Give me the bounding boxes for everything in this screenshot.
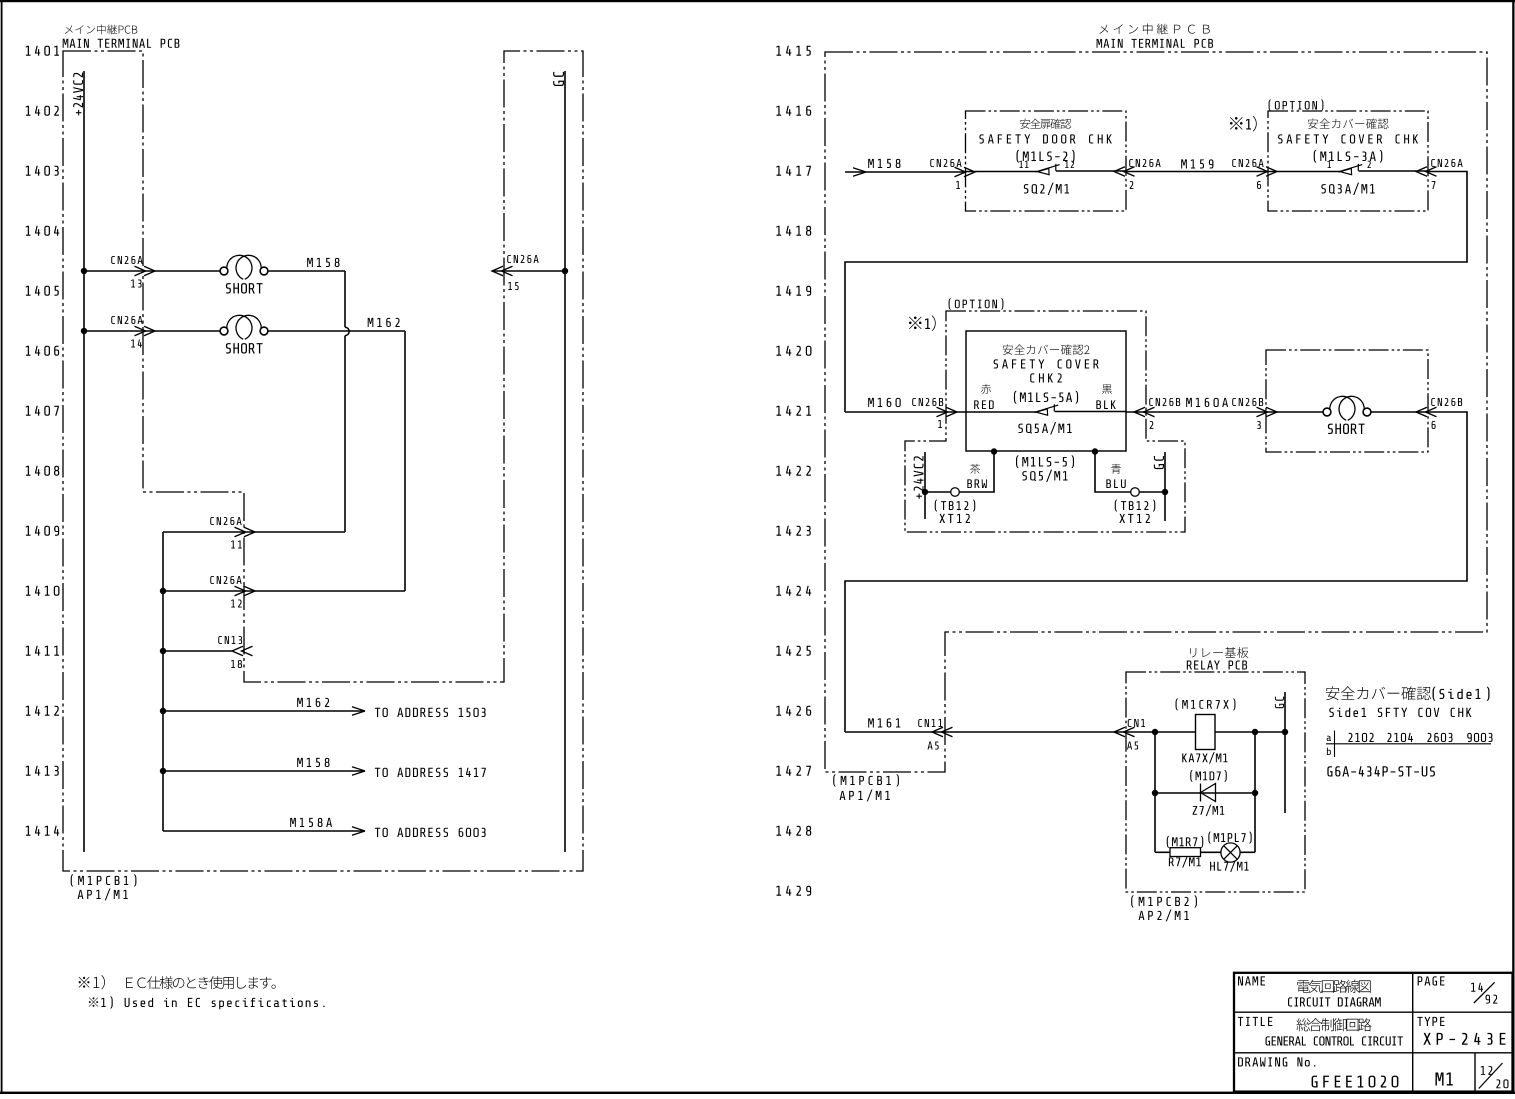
label 青 BLU: [1106, 464, 1125, 488]
title PAGE: [1418, 976, 1445, 985]
label (M1PCB1) AP1/M1 (left): [71, 874, 137, 900]
right PCB dash-dot boundary: [825, 52, 1487, 772]
label RELAY PCB: [1187, 661, 1247, 670]
label M161: [868, 718, 900, 727]
jumper SHORT M162: [220, 315, 268, 353]
wire 1421 to 1425: [845, 412, 1467, 732]
relay PCB dash-dot box: [1126, 672, 1305, 892]
title GFEE1020: [1312, 1076, 1399, 1088]
entry arrow M158: [845, 159, 901, 176]
limit switch SQ5A wire left: [966, 411, 1036, 413]
+24VC2 stub line: [914, 452, 925, 519]
connector CN13 pin 18: [218, 636, 252, 668]
label 安全扉確認: [1020, 119, 1071, 129]
GC line (relay): [1275, 692, 1285, 813]
wire resistor to lamp: [1201, 851, 1222, 853]
label (M1PCB1) AP1/M1 (right): [833, 774, 899, 801]
label ref mark 2: [909, 315, 936, 331]
limit switch SQ5A wire right: [1055, 411, 1126, 413]
wire M160: [845, 411, 966, 413]
label SAFETY COVER CHK: [1278, 134, 1418, 143]
label 茶 BRW: [967, 464, 987, 488]
wire M160A: [1126, 398, 1266, 412]
drawing fraction 12/20: [1479, 1063, 1509, 1089]
title block frame: [1234, 973, 1513, 1092]
wire terminal to GC: [1139, 491, 1165, 493]
right branch vertical: [1254, 732, 1256, 852]
title NAME: [1238, 976, 1265, 985]
title TITLE: [1238, 1017, 1273, 1026]
wire M158 to door chk: [866, 171, 966, 173]
connector CN26A pin 12: [210, 576, 255, 607]
label SAFETY DOOR CHK: [979, 134, 1111, 143]
wire coil to GC: [1215, 731, 1285, 733]
connector CN11 pin A5: [918, 719, 952, 749]
label リレー基板: [1190, 647, 1248, 658]
label SQ3A/M1: [1321, 183, 1374, 195]
wire CN26A14 to SHORT: [84, 330, 220, 332]
label (M1LS-5): [1016, 455, 1074, 468]
label (TB12) right: [1115, 500, 1156, 512]
connector CN26A pin 13: [111, 256, 155, 287]
label SQ5A/M1: [1018, 422, 1071, 434]
label (M1LS-5A): [1014, 391, 1078, 404]
GC line (left): [553, 71, 565, 852]
limit switch SQ2 wire right: [1056, 170, 1126, 172]
label main terminal PCB (right, Japanese): [1099, 23, 1209, 34]
wire right drop: [1095, 452, 1131, 493]
short jumper box: [1266, 350, 1428, 452]
wire terminal to +24VC2: [925, 491, 951, 493]
title 総合制御回路: [1296, 1018, 1371, 1031]
wire row 1410 to M162: [163, 590, 405, 592]
label MAIN TERMINAL PCB (left): [63, 39, 180, 48]
limit switch SQ3A contact: [1327, 161, 1370, 175]
title TYPE: [1417, 1017, 1444, 1026]
text TO ADDRESS 1417: [375, 768, 486, 777]
wire M158A out: [163, 818, 365, 835]
lamp HL7: [1208, 832, 1251, 872]
relay coil M1CR7X: [1176, 698, 1236, 763]
node diode left: [1152, 790, 1158, 796]
label 安全カバー確認: [1308, 118, 1389, 129]
wire M162 horizontal: [268, 318, 405, 331]
left bus vertical: [162, 532, 164, 831]
label MAIN TERMINAL PCB (right): [1097, 39, 1213, 48]
node box-bottom right: [1092, 448, 1098, 454]
wire CN26A13 to SHORT: [84, 270, 220, 272]
label XT12 right: [1119, 514, 1150, 523]
terminal XT12 right: [1131, 488, 1140, 497]
wire diode row: [1155, 792, 1255, 794]
label SQ2/M1: [1024, 183, 1069, 195]
node diode top: [1252, 729, 1258, 735]
connector CN26A pin 7: [1416, 159, 1463, 189]
limit switch SQ2 contact: [1019, 161, 1074, 175]
side note Side1 SFTY COV CHK: [1329, 708, 1471, 717]
node +24VC2/M158: [81, 268, 87, 274]
safety door chk box: [966, 111, 1127, 211]
node +24VC2 stub: [922, 489, 928, 495]
node GC stub: [1162, 489, 1168, 495]
node bus 1413: [160, 768, 166, 774]
resistor M1R7: [1167, 836, 1204, 868]
label G6A-434P-ST-US: [1327, 766, 1435, 776]
wire left drop: [959, 452, 994, 493]
label (M1LS-3A): [1314, 150, 1383, 163]
connector CN26B pin 3: [1232, 398, 1277, 429]
limit switch SQ3A wire right: [1359, 170, 1428, 172]
label (M1LS-2): [1017, 150, 1075, 163]
label M160: [868, 398, 901, 407]
wire M162 vertical: [404, 331, 406, 591]
node bus 1410: [160, 588, 166, 594]
note EC English: [89, 996, 325, 1009]
crossover hop M158 over M162: [345, 327, 349, 335]
connector CN26A pin 11: [210, 517, 255, 548]
text TO ADDRESS 6003: [375, 828, 486, 837]
connector CN26B pin 2 (row1421): [1134, 398, 1180, 429]
left branch vertical: [1154, 732, 1156, 852]
label 赤 RED: [974, 384, 994, 409]
connector CN26A pin 1: [930, 159, 975, 189]
connector CN1 pin A5: [1114, 719, 1145, 749]
node +24VC2/M162: [81, 328, 87, 334]
wire row 1409 to M158: [163, 531, 345, 533]
connector CN26A pin 6: [1232, 159, 1277, 189]
+24VC2 supply line: [73, 71, 84, 852]
diode M1D7: [1190, 770, 1227, 816]
label (OPTION) cover chk: [1269, 99, 1324, 110]
label 黒 BLK: [1096, 384, 1115, 409]
option boundary cover chk2: [905, 311, 1185, 532]
title XP-243E: [1423, 1033, 1505, 1045]
node GC relay: [1282, 729, 1288, 735]
wire short right: [1371, 411, 1428, 413]
node diode right: [1252, 790, 1258, 796]
jumper SHORT M158: [220, 255, 268, 293]
node bus 1411: [160, 648, 166, 654]
limit switch SQ3A wire left: [1268, 171, 1340, 173]
title 電気回路線図: [1297, 980, 1370, 993]
safety cover chk box: [1268, 111, 1428, 211]
title M1: [1435, 1073, 1452, 1086]
node bus 1412: [160, 708, 166, 714]
label SQ5/M1: [1022, 470, 1067, 482]
side note 安全カバー確認(Side1): [1326, 686, 1490, 700]
connector CN26B pin 6: [1416, 398, 1462, 429]
GC stub line: [1154, 452, 1165, 521]
connector CN26A pin 15: [492, 255, 539, 290]
wire short left: [1266, 411, 1323, 413]
label main terminal PCB (left, Japanese): [65, 24, 137, 34]
wire M158 vertical lower: [344, 336, 346, 532]
left PCB dash-dot boundary: [63, 51, 583, 871]
wire M158 out: [163, 758, 365, 775]
limit switch SQ5A contact: [1034, 404, 1058, 415]
pin table: [1326, 731, 1493, 758]
label ref mark 1: [1230, 116, 1257, 132]
wire M161: [845, 731, 1126, 733]
connector CN26A pin 14: [111, 316, 155, 347]
text TO ADDRESS 1503: [375, 708, 486, 717]
limit switch SQ2 wire left: [966, 171, 1038, 173]
connector CN26B pin 1 (row1421): [912, 398, 957, 428]
node box-bottom left: [991, 448, 997, 454]
label (TB12) left: [935, 500, 976, 512]
note EC Japanese: [79, 975, 276, 989]
title DRAWING No.: [1238, 1057, 1315, 1066]
safety cover chk2 box: [966, 331, 1126, 451]
left address row labels 1401-1414: [26, 46, 60, 836]
node GC/CN26A15: [562, 268, 568, 274]
label 安全カバー確認2: [1003, 344, 1090, 355]
connector CN26A pin 2: [1114, 159, 1161, 189]
label (OPTION) cover chk2: [949, 298, 1004, 309]
label (M1PCB2) AP2/M1: [1131, 895, 1197, 921]
page fraction 14/92: [1471, 982, 1497, 1003]
right address row labels 1415-1429: [776, 46, 811, 896]
title GENERAL CONTROL CIRCUIT: [1266, 1036, 1403, 1045]
wire bottom row left: [1155, 851, 1170, 853]
wire CN1 to coil: [1126, 731, 1195, 733]
label CHK2: [1030, 373, 1062, 382]
label XT12 left: [939, 514, 970, 523]
wire CN26A15 to GC: [492, 270, 565, 272]
label SAFETY COVER: [994, 359, 1099, 368]
wire lamp to right branch: [1240, 851, 1255, 853]
wire 1417 to 1421: [845, 172, 1467, 413]
wire M158 vertical upper: [344, 271, 346, 327]
wire CN13 pin 18: [163, 650, 232, 652]
wire M159: [1126, 159, 1268, 171]
node relay left: [1152, 729, 1158, 735]
wire M158 horizontal: [268, 258, 345, 271]
title CIRCUIT DIAGRAM: [1288, 997, 1381, 1006]
wire M162 out: [163, 698, 365, 715]
terminal XT12 left: [951, 488, 960, 497]
jumper SHORT (right): [1323, 396, 1371, 434]
